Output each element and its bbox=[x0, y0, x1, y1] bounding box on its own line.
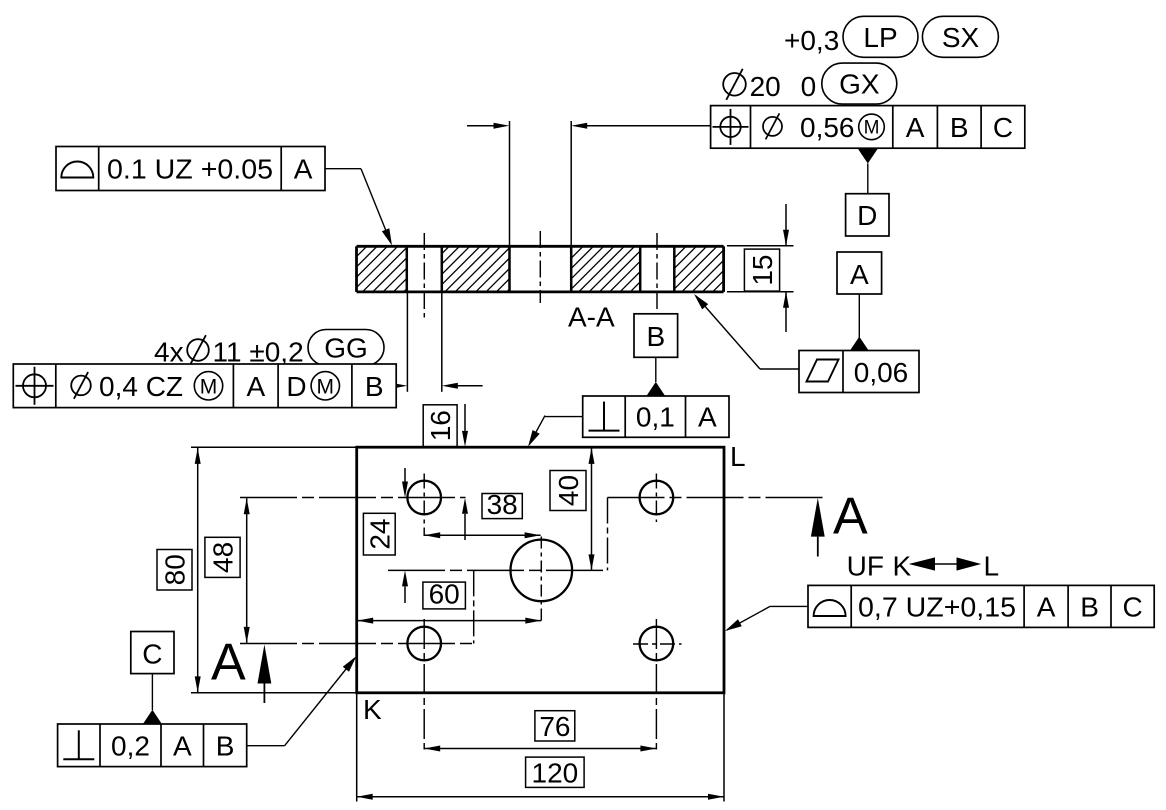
svg-text:20: 20 bbox=[750, 71, 781, 102]
datum box D bbox=[846, 194, 889, 236]
svg-text:0,2: 0,2 bbox=[111, 730, 150, 761]
dimension 60 bbox=[357, 579, 541, 624]
svg-text:38: 38 bbox=[487, 489, 518, 520]
svg-text:A: A bbox=[211, 634, 246, 692]
svg-text:C: C bbox=[142, 639, 162, 670]
datum triangle from C to perp frame bbox=[143, 674, 163, 725]
svg-text:80: 80 bbox=[160, 554, 191, 585]
flatness frame 0,06 bbox=[799, 351, 919, 393]
profile FCF 0.1 UZ +0.05 bbox=[56, 147, 325, 191]
svg-text:A: A bbox=[698, 402, 717, 433]
datum triangle from B to perp frame bbox=[646, 357, 666, 396]
svg-text:C: C bbox=[993, 112, 1013, 143]
hole bottom-right bbox=[640, 627, 674, 661]
perpendicularity FCF 0,1 A bbox=[583, 396, 729, 437]
svg-text:0,4 CZ: 0,4 CZ bbox=[99, 371, 183, 402]
svg-text:UF: UF bbox=[847, 551, 884, 582]
svg-text:60: 60 bbox=[429, 579, 460, 610]
svg-text:0,56: 0,56 bbox=[800, 112, 855, 143]
dim line to position FCF bbox=[467, 121, 711, 246]
hole bottom-left bbox=[407, 627, 441, 661]
svg-text:A: A bbox=[1037, 591, 1056, 622]
position FCF 4x dia 11 bbox=[13, 364, 396, 408]
center hole dia 20 bbox=[511, 540, 573, 602]
svg-text:SX: SX bbox=[942, 22, 980, 53]
dimension 24 bbox=[363, 468, 408, 603]
centerlines and section cut line bbox=[240, 474, 827, 750]
dimension 38 bbox=[424, 489, 540, 538]
dimension 40 bbox=[550, 448, 595, 571]
text +0,3 with LP SX ovals bbox=[784, 16, 998, 57]
svg-text:16: 16 bbox=[425, 410, 456, 441]
svg-text:A: A bbox=[173, 730, 192, 761]
text 4x dia 11 with GG oval bbox=[154, 330, 384, 368]
datum box C bbox=[131, 632, 174, 674]
dimension 16 bbox=[423, 404, 468, 540]
svg-text:M: M bbox=[317, 375, 335, 398]
dimension 80 bbox=[157, 447, 357, 693]
svg-text:120: 120 bbox=[532, 758, 579, 789]
svg-text:D: D bbox=[286, 371, 306, 402]
dimension 120 bbox=[357, 693, 724, 802]
svg-text:C: C bbox=[1122, 591, 1142, 622]
svg-text:A: A bbox=[833, 488, 868, 546]
dimension 76 bbox=[424, 711, 656, 752]
section A-A hatched bar bbox=[311, 246, 769, 292]
label K bbox=[363, 694, 382, 725]
perpendicularity FCF 0,2 A B bbox=[58, 724, 247, 767]
svg-text:11 ±0,2: 11 ±0,2 bbox=[213, 337, 304, 368]
svg-text:L: L bbox=[984, 551, 1000, 582]
svg-text:K: K bbox=[893, 551, 912, 582]
svg-text:0,7 UZ+0,15: 0,7 UZ+0,15 bbox=[858, 591, 1016, 622]
section arrow A right bbox=[811, 488, 868, 557]
svg-text:B: B bbox=[365, 371, 384, 402]
svg-text:M: M bbox=[864, 118, 880, 139]
dimension 48 bbox=[205, 498, 250, 643]
label A-A bbox=[568, 302, 615, 333]
datum box A bbox=[837, 252, 882, 294]
svg-text:GG: GG bbox=[324, 333, 368, 364]
svg-text:A: A bbox=[246, 371, 265, 402]
bar hole centerlines bbox=[424, 231, 657, 320]
svg-text:L: L bbox=[730, 441, 746, 472]
svg-text:24: 24 bbox=[364, 519, 395, 550]
profile FCF 0,7 UZ+0,15 bbox=[808, 585, 1154, 627]
svg-text:M: M bbox=[200, 375, 218, 398]
text dia 20 0 with GX oval bbox=[723, 63, 897, 104]
svg-text:B: B bbox=[646, 321, 665, 352]
leader perp FCF to plate left edge bbox=[247, 656, 357, 746]
svg-text:A: A bbox=[294, 154, 313, 185]
svg-text:A: A bbox=[906, 112, 925, 143]
section arrow A left bbox=[211, 634, 271, 704]
hole top-right bbox=[640, 481, 674, 515]
datum triangle from A to flatness frame bbox=[850, 294, 870, 351]
svg-text:B: B bbox=[216, 730, 235, 761]
svg-text:0.1 UZ +0.05: 0.1 UZ +0.05 bbox=[107, 154, 273, 185]
svg-text:15: 15 bbox=[747, 255, 778, 286]
svg-text:0,06: 0,06 bbox=[854, 357, 909, 388]
datum triangle from FCF to D bbox=[858, 149, 878, 194]
hole top-left bbox=[407, 481, 441, 515]
svg-text:4x: 4x bbox=[154, 337, 184, 368]
dimension 15 bbox=[727, 204, 794, 332]
label L bbox=[730, 441, 746, 472]
svg-text:0: 0 bbox=[801, 71, 817, 102]
svg-text:+0,3: +0,3 bbox=[784, 25, 839, 56]
feature control frame position 0,56 bbox=[711, 106, 1025, 149]
svg-text:B: B bbox=[1080, 591, 1099, 622]
leader profile FCF to plate right edge bbox=[725, 606, 808, 631]
svg-text:LP: LP bbox=[863, 22, 897, 53]
svg-text:D: D bbox=[857, 200, 877, 231]
svg-text:76: 76 bbox=[539, 711, 570, 742]
main plate outline bbox=[357, 447, 724, 693]
svg-text:0,1: 0,1 bbox=[636, 402, 675, 433]
label UF K-L bbox=[847, 551, 999, 582]
svg-text:B: B bbox=[950, 112, 969, 143]
svg-text:K: K bbox=[363, 694, 382, 725]
svg-text:GX: GX bbox=[839, 69, 880, 100]
leader flatness frame to bar bbox=[694, 294, 799, 369]
svg-text:40: 40 bbox=[553, 475, 584, 506]
leader perp FCF to plate top bbox=[528, 416, 583, 447]
svg-text:A-A: A-A bbox=[568, 302, 615, 333]
svg-text:48: 48 bbox=[208, 542, 239, 573]
leader profile FCF to bar bbox=[325, 169, 392, 246]
dim lines 4x dia 11 bbox=[391, 292, 482, 392]
svg-text:A: A bbox=[850, 259, 869, 290]
datum box B bbox=[634, 314, 678, 358]
